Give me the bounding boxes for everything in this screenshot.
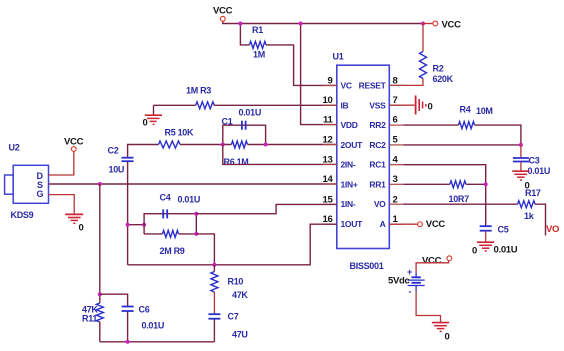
- svg-text:VO: VO: [546, 224, 559, 235]
- wire battery top: [416, 261, 449, 273]
- svg-text:1OUT: 1OUT: [341, 219, 364, 229]
- svg-text:2OUT: 2OUT: [341, 140, 364, 150]
- svg-text:1k: 1k: [524, 211, 535, 221]
- svg-text:47U: 47U: [232, 330, 248, 340]
- wire C2 bottom down to rail corner: [127, 162, 129, 265]
- svg-text:1M: 1M: [253, 50, 265, 60]
- resistor R3: [186, 86, 214, 109]
- svg-text:R2: R2: [433, 64, 444, 74]
- wire junction down to pin 13: [223, 145, 337, 165]
- ground (C3): [512, 162, 529, 192]
- svg-text:C4: C4: [160, 193, 171, 203]
- wire VCC rail to VDD pin 11: [301, 24, 337, 125]
- svg-text:RC1: RC1: [369, 160, 386, 170]
- svg-text:VCC: VCC: [442, 20, 462, 31]
- node junction C2 line / C4 R9: [126, 223, 130, 227]
- svg-text:10M: 10M: [476, 106, 493, 116]
- U1 left pin labels: [341, 81, 364, 229]
- wire C4 branch to pin 15: [196, 204, 336, 213]
- node junction R5/R6/C1 left: [221, 143, 225, 147]
- ground (C5): [472, 231, 518, 256]
- resistor R17: [518, 188, 541, 221]
- node junction rail/VDD: [299, 22, 303, 26]
- wire C2 top to R5 row: [128, 145, 159, 158]
- node junction RC1/RR1: [484, 182, 488, 186]
- svg-text:0: 0: [472, 246, 477, 257]
- wire R4 down to pin 5 node: [475, 125, 521, 145]
- wire ground stub pin 7: [389, 104, 414, 106]
- node junction S/R11: [98, 182, 102, 186]
- svg-text:11: 11: [323, 115, 333, 126]
- svg-text:A: A: [380, 219, 386, 229]
- wire R7 to node: [466, 183, 486, 185]
- svg-text:0.01U: 0.01U: [142, 321, 165, 331]
- wire 1OUT rail: [128, 224, 337, 265]
- wire R5 to junction: [180, 144, 231, 146]
- power symbol VCC (pin 1): [389, 219, 445, 230]
- svg-text:1IN+: 1IN+: [341, 179, 358, 189]
- node VO terminal: [546, 224, 559, 235]
- wire R2 to pin 8: [389, 79, 423, 86]
- wire R6 to pin 12: [248, 144, 337, 146]
- ground (U2 gate): [65, 214, 83, 233]
- svg-text:VCC: VCC: [64, 137, 84, 148]
- U1 right pin labels: [359, 81, 387, 229]
- svg-text:R5 10K: R5 10K: [165, 128, 195, 138]
- wire C4/R9 entry: [128, 224, 145, 226]
- wire S pin to pin 14: [49, 183, 337, 185]
- wire bottom rail: [100, 341, 215, 343]
- svg-text:R11: R11: [82, 314, 97, 324]
- wire pin 5 to node: [403, 144, 521, 146]
- svg-text:6: 6: [393, 115, 398, 126]
- battery V1 5Vdc: [388, 267, 425, 297]
- svg-text:R6 1M: R6 1M: [224, 157, 249, 167]
- wire G pin to ground: [49, 195, 75, 214]
- power symbol VCC (top right): [423, 20, 461, 31]
- wire R9 branch to R10 rail: [196, 234, 214, 265]
- wire pin 6 to R4: [403, 124, 458, 126]
- wire battery bottom to ground: [416, 292, 440, 323]
- wire C4/R9 parallel box: [144, 214, 196, 234]
- resistor R6: [224, 141, 249, 167]
- svg-text:R1: R1: [252, 25, 263, 35]
- power symbol VCC (top left): [213, 6, 233, 22]
- resistor R5: [159, 128, 195, 149]
- svg-text:0.01U: 0.01U: [239, 108, 262, 118]
- svg-text:KDS9: KDS9: [11, 210, 34, 220]
- svg-text:C1: C1: [222, 117, 233, 127]
- transistor U2 (KDS9 sensor): [5, 143, 49, 221]
- resistor R10: [211, 265, 249, 300]
- svg-text:RR2: RR2: [369, 120, 386, 130]
- U1 left pin numbers: [323, 75, 334, 225]
- svg-text:9: 9: [328, 75, 333, 86]
- svg-text:C3: C3: [529, 156, 540, 166]
- svg-text:7: 7: [393, 95, 398, 106]
- svg-text:5Vdc: 5Vdc: [388, 276, 410, 287]
- wire VCC to D pin: [49, 152, 74, 175]
- svg-text:C2: C2: [108, 146, 119, 156]
- svg-text:14: 14: [323, 174, 334, 185]
- capacitor C3: [513, 145, 550, 176]
- wire C6 branch: [100, 294, 128, 306]
- resistor R7: [449, 181, 470, 204]
- svg-text:U1: U1: [333, 52, 344, 62]
- U1 left pin stubs: [323, 85, 337, 224]
- node junction R9 right: [194, 232, 198, 236]
- svg-text:47K: 47K: [232, 290, 248, 300]
- node junction R11/C6: [98, 292, 102, 296]
- node junction R6/C1 right: [264, 143, 268, 147]
- svg-text:10: 10: [323, 95, 333, 106]
- svg-text:VSS: VSS: [369, 100, 386, 110]
- svg-text:13: 13: [323, 154, 333, 165]
- svg-text:1IN-: 1IN-: [341, 199, 356, 209]
- svg-text:C7: C7: [228, 312, 239, 322]
- svg-text:10R7: 10R7: [449, 194, 470, 204]
- capacitor C2: [108, 146, 134, 175]
- svg-text:G: G: [37, 189, 44, 199]
- resistor R4: [458, 105, 492, 129]
- ground (pin 7, sideways): [416, 96, 433, 115]
- wire C1 branch box: [223, 125, 266, 144]
- svg-text:620K: 620K: [433, 74, 454, 84]
- svg-text:8: 8: [393, 75, 398, 86]
- wire pin 4 down to C5: [403, 165, 485, 226]
- svg-text:-: -: [409, 287, 412, 297]
- capacitor C4: [160, 193, 201, 219]
- svg-text:R10: R10: [228, 277, 244, 287]
- ground (battery): [432, 323, 450, 343]
- wire R3 to pin 10: [214, 104, 337, 106]
- svg-text:0: 0: [79, 223, 84, 234]
- wire R11 column: [99, 184, 101, 303]
- wire R1 branch down from rail: [240, 24, 249, 45]
- svg-text:0.01U: 0.01U: [494, 245, 518, 256]
- node junction rail/R2: [421, 22, 425, 26]
- capacitor C1: [222, 108, 262, 130]
- ground (R3 input, node 0): [143, 105, 163, 128]
- node junction R4/RC2/C3: [519, 143, 523, 147]
- svg-text:0.01U: 0.01U: [178, 195, 201, 205]
- svg-text:IB: IB: [341, 100, 349, 110]
- svg-text:2M R9: 2M R9: [160, 246, 185, 256]
- U1 right pin stubs: [389, 85, 403, 224]
- svg-text:VCC: VCC: [213, 6, 233, 17]
- svg-text:BISS001: BISS001: [350, 261, 384, 271]
- svg-text:12: 12: [323, 135, 333, 146]
- node junction C4 right: [194, 212, 198, 216]
- capacitor C6: [122, 305, 164, 342]
- svg-text:3: 3: [393, 174, 398, 185]
- IC U1 BISS0001: [333, 52, 390, 272]
- wire R17 to VO: [535, 204, 546, 235]
- wire pin 2 to R17: [403, 203, 517, 205]
- node junction entry / box: [142, 223, 146, 227]
- node junction C6/bottom rail: [126, 340, 130, 344]
- svg-text:VDD: VDD: [341, 120, 358, 130]
- power symbol VCC (U2 drain): [64, 137, 84, 152]
- resistor R9: [144, 230, 196, 256]
- svg-text:0: 0: [143, 118, 148, 129]
- U1 right pin numbers: [393, 75, 399, 225]
- svg-text:0: 0: [428, 102, 433, 113]
- node junction rail/R10: [212, 263, 216, 267]
- resistor R11: [82, 303, 103, 342]
- svg-text:U2: U2: [9, 143, 20, 153]
- svg-text:VCC: VCC: [422, 256, 442, 267]
- svg-text:10U: 10U: [109, 165, 125, 175]
- capacitor C5: [480, 225, 509, 235]
- resistor R1: [250, 25, 267, 60]
- wire pin 3 to R7: [403, 183, 450, 185]
- svg-text:R17: R17: [525, 188, 541, 198]
- svg-text:VO: VO: [374, 199, 386, 209]
- svg-text:0.01U: 0.01U: [528, 166, 551, 176]
- svg-text:0: 0: [445, 332, 450, 343]
- resistor R2: [420, 52, 454, 85]
- svg-text:C5: C5: [498, 225, 509, 235]
- capacitor C7: [208, 292, 247, 342]
- wire R1 to pin 9: [266, 45, 337, 86]
- svg-text:1M R3: 1M R3: [186, 86, 211, 96]
- svg-text:RC2: RC2: [369, 140, 386, 150]
- wire R2 vertical: [422, 24, 424, 52]
- node junction rail/R1: [238, 22, 242, 26]
- svg-text:VC: VC: [341, 81, 352, 91]
- svg-text:RR1: RR1: [369, 179, 386, 189]
- wire VCC top rail: [223, 22, 423, 24]
- svg-text:C6: C6: [139, 305, 150, 315]
- svg-text:2IN-: 2IN-: [341, 160, 356, 170]
- svg-text:R4: R4: [460, 105, 471, 115]
- svg-text:VCC: VCC: [426, 219, 446, 230]
- power symbol VCC (battery): [422, 256, 452, 267]
- svg-text:RESET: RESET: [359, 81, 387, 91]
- wire ground to R3: [154, 104, 196, 106]
